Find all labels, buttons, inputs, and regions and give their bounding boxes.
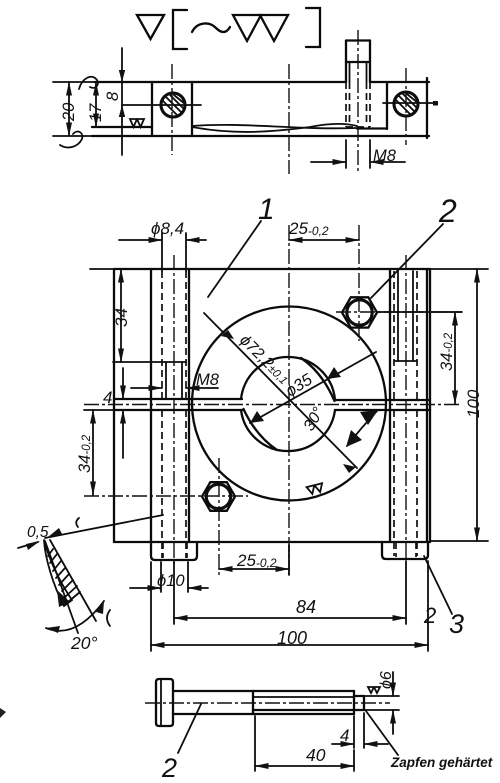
slot edge left in top view xyxy=(151,82,153,136)
plate bottom edge xyxy=(114,541,430,543)
svg-text:ϕ8,4: ϕ8,4 xyxy=(151,219,184,238)
pin cross-section hatched circle left xyxy=(161,93,185,117)
M8 extension line left xyxy=(345,140,347,168)
extension line bottom for 20 xyxy=(53,135,92,137)
dim 34-0.2 right xyxy=(378,311,462,313)
slit left top line xyxy=(114,398,242,400)
SECTION: top side view xyxy=(53,30,438,174)
left foot xyxy=(151,542,197,560)
svg-text:34: 34 xyxy=(112,308,131,327)
svg-text:0,5: 0,5 xyxy=(27,524,49,541)
dimension 17 xyxy=(95,82,97,127)
extension line top edge left xyxy=(90,268,114,270)
left column step line xyxy=(113,361,186,363)
dim 25-0.2 bottom extensions xyxy=(288,545,290,575)
right column outer right xyxy=(426,269,428,542)
bar right end xyxy=(426,78,428,138)
head facet line xyxy=(160,679,162,726)
machined line with finish mark xyxy=(92,126,152,128)
stud hidden minor right below xyxy=(366,82,368,122)
SECTION: detail view xyxy=(18,515,163,653)
left hole wall dashed right xyxy=(185,271,187,399)
dia6 extension top xyxy=(364,695,399,697)
surface finish triangle single xyxy=(137,15,164,39)
right thread minor lines xyxy=(397,271,399,361)
leader 2 bolt xyxy=(178,704,201,753)
bar bottom edge xyxy=(92,135,429,137)
finish mark double small at pin xyxy=(368,687,380,693)
SECTION: bottom bolt view xyxy=(0,671,493,783)
right hole wall dashed right xyxy=(416,271,418,400)
stud right edge xyxy=(369,41,371,83)
dimension 8 xyxy=(121,48,123,155)
arrow left side of 0.5 xyxy=(18,542,38,548)
dim 34-0.2 lower left xyxy=(92,410,94,495)
plate center line in top view xyxy=(288,64,290,174)
bar left break line xyxy=(79,77,98,89)
leader for 3 xyxy=(424,556,452,614)
hatch pin left xyxy=(163,94,185,115)
stud center line xyxy=(357,30,359,174)
hex bolt top right center line vertical xyxy=(358,225,360,341)
plate right edge xyxy=(429,269,431,542)
stud thread minor left xyxy=(349,62,351,82)
hex bolt top right xyxy=(342,297,377,327)
cam spiral upper-right xyxy=(301,358,335,401)
right foot hole dashed xyxy=(395,542,397,557)
stud hidden right below xyxy=(369,82,371,127)
tilde symbol xyxy=(192,23,230,32)
bracket right xyxy=(306,8,320,47)
svg-text:84: 84 xyxy=(296,597,316,617)
dim 100 right xyxy=(476,269,478,541)
svg-text:4: 4 xyxy=(340,726,349,745)
dim 34 left xyxy=(120,269,122,362)
wedge sliver outline xyxy=(44,540,72,606)
slot edge right in top view xyxy=(191,82,193,136)
finish mark double triangle on bore xyxy=(307,483,324,495)
dimension 20 xyxy=(68,82,70,136)
dia6 extension bottom xyxy=(364,709,399,711)
pin top line xyxy=(354,695,364,697)
stud hidden bottom xyxy=(346,126,370,128)
dim 100 xyxy=(151,644,428,646)
pin end vertical xyxy=(363,696,365,710)
pin bottom line xyxy=(354,709,364,711)
svg-text:20: 20 xyxy=(60,102,78,122)
left column outer right xyxy=(188,269,190,542)
thread start vertical xyxy=(252,691,254,714)
svg-text:40: 40 xyxy=(306,745,326,765)
SECTION: top finish symbols xyxy=(137,8,320,49)
hole horizontal center line xyxy=(122,104,201,106)
extension line top for 20 xyxy=(53,81,95,83)
hex bolt top right center line horizontal xyxy=(336,311,462,313)
dim 84 extensions xyxy=(173,562,175,624)
plate top edge xyxy=(114,268,430,270)
slit right bottom line xyxy=(335,409,430,411)
hex bolt bottom left center line horizontal xyxy=(84,495,248,497)
SECTION: main view xyxy=(84,225,462,575)
angle arc 20deg xyxy=(46,601,104,631)
dim M8 arrows main view xyxy=(131,387,162,389)
right end inner line xyxy=(357,127,387,129)
detail dim line through wedge tip xyxy=(45,515,163,538)
shank bottom line xyxy=(173,713,354,715)
dia6 dim arrows xyxy=(392,672,394,696)
cam spiral lower-left xyxy=(244,409,278,450)
right column center line xyxy=(405,255,407,560)
M8 dimension arrows xyxy=(311,161,346,163)
slit right top line xyxy=(335,399,430,401)
wedge hatching xyxy=(48,549,80,602)
dim dia 10 arrows xyxy=(130,587,161,589)
svg-text:2: 2 xyxy=(161,753,177,783)
dim dia 72.2 line xyxy=(204,313,357,468)
right hole wall dashed left xyxy=(393,271,395,400)
svg-text:2: 2 xyxy=(438,193,457,229)
cam slot wavy lens side view xyxy=(192,124,357,132)
surface finish triangle double 1 xyxy=(233,15,261,41)
angle line right xyxy=(50,540,96,621)
left foot hole dashed xyxy=(162,542,164,558)
plate left edge xyxy=(113,269,115,542)
hex bolt bottom left circle xyxy=(206,484,230,508)
svg-text:4: 4 xyxy=(103,388,112,407)
wedge bottom jag xyxy=(57,590,70,607)
stud hidden minor left below xyxy=(349,82,351,122)
dim 40 xyxy=(255,765,354,767)
hole vertical center line xyxy=(171,64,173,155)
bar top edge xyxy=(95,81,346,83)
svg-text:17: 17 xyxy=(87,103,105,122)
stud left edge xyxy=(345,41,347,83)
dim 40 extensions xyxy=(254,716,256,771)
dim 34-0.2 lower left extension at slit xyxy=(84,409,118,411)
dim 25-0.2 bottom xyxy=(219,568,289,570)
scan artifact small arc left xyxy=(107,610,110,626)
thread minor bottom xyxy=(253,709,354,711)
dim dia 10 extensions xyxy=(160,562,162,592)
thread minor top xyxy=(253,696,354,698)
arrow right side of 0.5 xyxy=(48,528,62,537)
left thread minor lines xyxy=(165,362,167,399)
stud hidden left below xyxy=(345,82,347,127)
right column outer left xyxy=(389,269,391,542)
left column center line xyxy=(173,255,175,565)
svg-text:8: 8 xyxy=(104,91,122,101)
dim 84 xyxy=(174,617,406,619)
svg-text:20°: 20° xyxy=(70,633,97,653)
pin cross-section hatched circle right xyxy=(394,92,418,116)
hatch pin right xyxy=(396,93,418,114)
dim 4 arrows xyxy=(332,743,354,745)
shank top line xyxy=(173,690,354,692)
right pin horizontal center line xyxy=(383,102,433,104)
dim 8.4 extension lines xyxy=(161,233,163,271)
dim 4 extensions xyxy=(353,716,355,748)
dim dia 35 line xyxy=(250,352,376,423)
angle line left xyxy=(45,541,78,633)
right end block edge xyxy=(386,82,388,129)
surface finish triangle double 2 xyxy=(260,15,288,41)
svg-text:2: 2 xyxy=(423,603,436,628)
stud chamfer line xyxy=(346,61,370,63)
vertical center line xyxy=(288,225,290,575)
right pin vertical center line xyxy=(405,68,407,145)
leader for 2 xyxy=(371,224,443,298)
dim 100 extensions xyxy=(150,562,152,651)
dim 8.4 arrows xyxy=(119,239,162,241)
hex bolt bottom left xyxy=(202,482,235,511)
dim 25-0.2 top xyxy=(289,239,359,241)
central hole arc upper xyxy=(241,357,335,400)
leader for 1 xyxy=(208,221,261,297)
svg-text:100: 100 xyxy=(277,628,307,648)
SECTION: dimensions around main view xyxy=(76,193,488,651)
svg-text:M8: M8 xyxy=(196,371,220,389)
big bore circle dia 72.2 xyxy=(192,307,386,501)
svg-text:Zapfen gehärtet: Zapfen gehärtet xyxy=(390,755,493,770)
central hole arc lower xyxy=(241,410,335,451)
bolt center line xyxy=(145,702,390,704)
bolt hex head xyxy=(156,679,173,726)
hex bolt bottom left center line vertical xyxy=(218,458,220,575)
scan artifact left edge bottom xyxy=(0,708,6,718)
angle dim 30 arc xyxy=(347,411,377,446)
dim 100 right extensions xyxy=(430,268,488,270)
leader zapfen xyxy=(366,711,398,755)
finish mark triangle on line xyxy=(130,119,144,127)
right column step line xyxy=(394,360,417,362)
left column outer left xyxy=(150,269,152,542)
dim 4 left arrows xyxy=(122,368,124,399)
M8 extension line right xyxy=(369,140,371,168)
stud top cap xyxy=(346,39,370,41)
stud thread minor right xyxy=(366,62,368,82)
bracket left xyxy=(173,10,187,49)
svg-text:100: 100 xyxy=(464,389,483,418)
left hole wall dashed left xyxy=(161,271,163,399)
svg-text:M8: M8 xyxy=(373,147,397,165)
scan artifact left edge mid xyxy=(76,518,79,527)
slit left bottom line xyxy=(114,409,243,411)
hex bolt top right circle xyxy=(347,300,372,325)
svg-text:ϕ10: ϕ10 xyxy=(157,572,185,590)
right foot xyxy=(382,542,428,559)
thread end vertical xyxy=(353,691,355,714)
horizontal center line xyxy=(84,404,462,406)
